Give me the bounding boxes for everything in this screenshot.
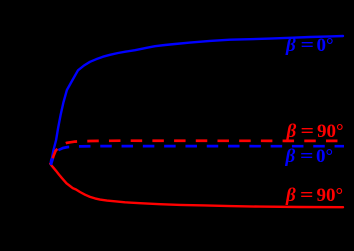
curve red dashed beta=90 mid (51, 141, 341, 164)
curve blue dashed beta=0 mid (51, 146, 344, 165)
curve red solid beta=90 bottom (50, 164, 343, 207)
curve blue solid beta=0 top (51, 36, 344, 164)
svg-text:β=0°: β=0° (285, 146, 334, 167)
svg-text:β=0°: β=0° (285, 35, 334, 56)
